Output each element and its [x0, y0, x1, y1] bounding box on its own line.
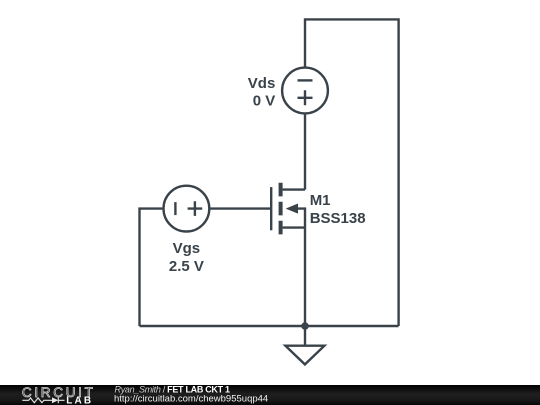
svg-text:BSS138: BSS138 [310, 210, 366, 227]
wire Vgs right to gate [210, 207, 271, 209]
svg-text:M1: M1 [310, 192, 331, 209]
svg-text:LAB: LAB [66, 396, 93, 405]
svg-text:Vds: Vds [248, 75, 276, 92]
transistor M1 (NMOS BSS138) [271, 183, 305, 235]
wire left rail: Vgs left lead down to bottom rail [140, 209, 163, 326]
voltage source Vgs [164, 186, 210, 232]
svg-text:2.5 V: 2.5 V [169, 258, 204, 275]
footer bar [0, 385, 540, 405]
CircuitLab logo [22, 385, 96, 405]
wire source to bottom node [304, 228, 306, 326]
voltage source Vds [282, 68, 328, 114]
svg-text:http://circuitlab.com/chewb955: http://circuitlab.com/chewb955uqp44 [114, 393, 268, 404]
wire Vds bottom to drain [304, 114, 306, 189]
svg-text:Vgs: Vgs [173, 240, 201, 257]
wire bottom rail [140, 325, 399, 327]
node junction dot [301, 322, 309, 330]
ground [285, 326, 324, 364]
svg-text:0 V: 0 V [253, 93, 276, 110]
wire top loop: Vds top to top-right corner down right side [305, 19, 399, 326]
